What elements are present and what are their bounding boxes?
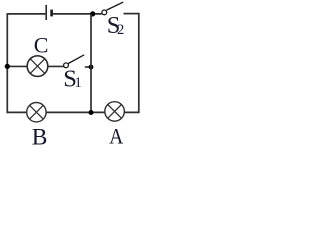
lamp C [27,56,48,77]
wire: bottom [7,111,139,113]
switch S1 [64,55,91,68]
wire: middle vertical [90,14,92,113]
wire: middle branch horizontal [7,65,63,67]
svg-text:1: 1 [75,75,82,91]
svg-text:2: 2 [117,22,124,38]
svg-text:C: C [34,32,49,57]
lamp A [105,102,125,122]
node: left junction [5,64,10,69]
wire: battery to switch S2 [53,13,102,15]
svg-text:A: A [109,123,123,148]
node: top junction [90,11,95,16]
wire: right vertical [138,13,140,113]
wire: top left segment (corner to battery) [7,13,45,15]
svg-text:B: B [32,124,48,148]
switch S2 [102,2,123,15]
node: middle junction [89,65,94,70]
wire: left vertical [6,13,8,113]
lamp B [27,103,46,122]
battery [46,5,51,20]
node: bottom junction [89,110,94,115]
wire: S2 right terminal to top-right corner [124,13,139,15]
